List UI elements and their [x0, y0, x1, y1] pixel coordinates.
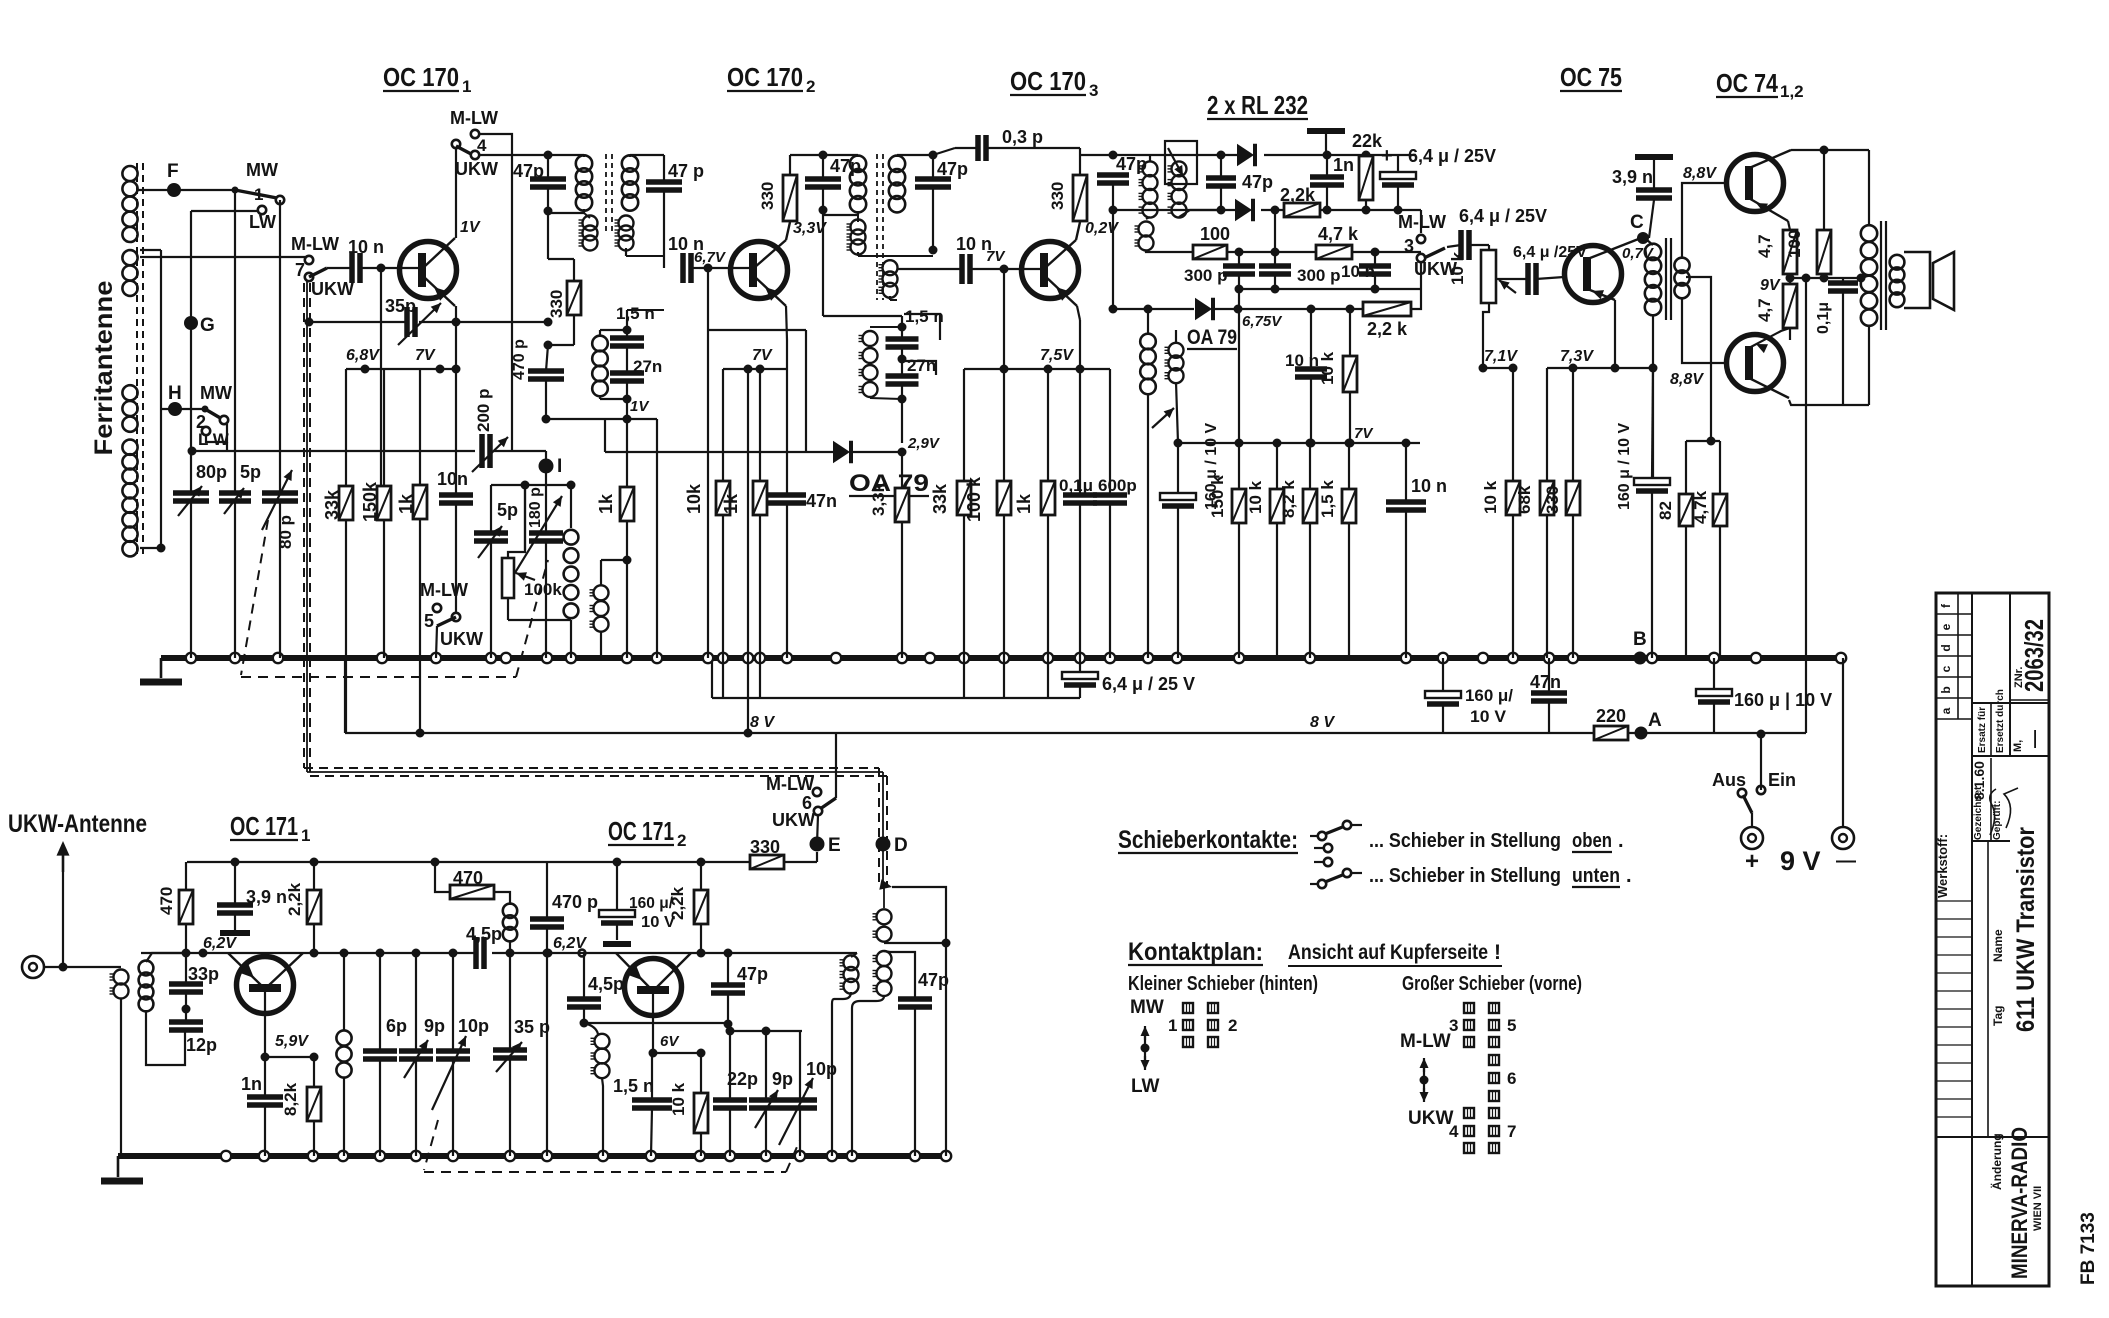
- osc coil: [564, 530, 579, 618]
- svg-text:LW: LW: [249, 212, 276, 232]
- svg-text:MW: MW: [1130, 997, 1164, 1018]
- svg-text:9p: 9p: [424, 1016, 445, 1036]
- gang dashed lower: [424, 1120, 438, 1170]
- svg-text:1: 1: [301, 826, 310, 845]
- svg-text:6V: 6V: [660, 1033, 680, 1050]
- svg-text:2,2k: 2,2k: [285, 882, 304, 916]
- svg-text:330: 330: [758, 182, 777, 210]
- svg-text:47 p: 47 p: [668, 161, 704, 181]
- svg-text:2: 2: [1228, 1016, 1237, 1035]
- svg-text:OC 171: OC 171: [230, 811, 298, 841]
- battery plus terminal: [1741, 827, 1763, 849]
- OC74_1 collector: [1747, 150, 1791, 169]
- svg-text:M,: M,: [2012, 740, 2024, 752]
- antenna coil winding 1: [122, 166, 137, 242]
- svg-text:600p: 600p: [1098, 476, 1137, 495]
- antenna secondary coil: [139, 961, 154, 1012]
- svg-text:7,1V: 7,1V: [1484, 348, 1518, 365]
- svg-text:330: 330: [1048, 182, 1067, 210]
- svg-text:9V: 9V: [1760, 277, 1781, 294]
- legend switch unten: [1324, 858, 1332, 866]
- line y419: [546, 418, 657, 420]
- svg-text:Name: Name: [1991, 929, 2005, 962]
- T1 UKW coil left: [579, 216, 598, 251]
- svg-text:12p: 12p: [186, 1035, 217, 1055]
- svg-text:6,8V: 6,8V: [346, 347, 380, 364]
- minerva radio: [2010, 1136, 2049, 1138]
- svg-text:3,9 n: 3,9 n: [1612, 167, 1653, 187]
- svg-text:2063/32: 2063/32: [2019, 619, 2049, 692]
- svg-text:+: +: [1745, 848, 1759, 875]
- collector diag OC171_1: [267, 953, 303, 987]
- OC74_2 collector: [1747, 377, 1789, 398]
- svg-text:22k: 22k: [1352, 131, 1383, 151]
- antenna input coil: [110, 970, 129, 999]
- output transformer core: [1880, 221, 1882, 330]
- svg-text:10 k: 10 k: [669, 1082, 688, 1116]
- svg-text:6,4 μ / 25V: 6,4 μ / 25V: [1408, 146, 1496, 166]
- svg-text:82: 82: [1656, 501, 1675, 520]
- svg-text:5p: 5p: [497, 500, 518, 520]
- svg-text:L W: L W: [198, 430, 230, 449]
- ground symbol left: [160, 658, 163, 678]
- sub rail under bus: [711, 658, 713, 698]
- svg-text:330: 330: [547, 290, 566, 318]
- transistor OC170_1: [400, 242, 457, 299]
- svg-text:0,1μ: 0,1μ: [1059, 476, 1093, 495]
- svg-text:... Schieber in Stellung: ... Schieber in Stellung: [1369, 865, 1561, 887]
- svg-text:A: A: [1648, 710, 1662, 731]
- svg-text:6: 6: [1507, 1069, 1516, 1088]
- title block frame: [1936, 593, 2049, 1286]
- capacitor 6.4u/25V sub rail: [1079, 658, 1081, 674]
- svg-text:LW: LW: [1131, 1076, 1160, 1097]
- svg-text:Schieberkontakte:: Schieberkontakte:: [1118, 826, 1298, 854]
- svg-text:e: e: [1939, 623, 1953, 630]
- svg-text:M-LW: M-LW: [450, 108, 498, 128]
- svg-text:0,1μ: 0,1μ: [1815, 302, 1832, 334]
- line 5.9V: [265, 1056, 314, 1058]
- svg-text:unten: unten: [1572, 865, 1620, 887]
- svg-text:1,5 k: 1,5 k: [1318, 480, 1337, 518]
- emitter diag OC171_1: [228, 953, 263, 987]
- transistor OC74_2: [1727, 335, 1784, 392]
- osc coil 2: [590, 585, 609, 631]
- transistor OC170_3: [1022, 242, 1079, 299]
- svg-text:FB 7133: FB 7133: [2078, 1212, 2099, 1285]
- svg-text:Werkstoff:: Werkstoff:: [1935, 834, 1950, 898]
- grosser contact squares: [1464, 1003, 1474, 1013]
- svg-text:2: 2: [677, 831, 686, 850]
- svg-text:Ersatz für: Ersatz für: [1977, 707, 1988, 753]
- svg-text:6p: 6p: [386, 1016, 407, 1036]
- svg-text:7V: 7V: [986, 248, 1006, 265]
- line y441: [1686, 440, 1720, 442]
- T3 trimmer box: [1165, 141, 1197, 184]
- antenna arrow: [62, 845, 65, 872]
- T2 UKW coil lower: [879, 260, 898, 298]
- svg-text:I: I: [557, 456, 562, 477]
- svg-text:180 p: 180 p: [527, 487, 544, 528]
- svg-text:1: 1: [462, 77, 471, 96]
- svg-text:80p: 80p: [196, 462, 227, 482]
- line443 to 289 link: [1419, 420, 1421, 443]
- antenna coil winding 2: [122, 250, 137, 296]
- svg-text:330: 330: [1543, 486, 1562, 514]
- T2 top line: [790, 154, 823, 156]
- transistor OC171_2: [625, 959, 682, 1016]
- transistor OC74_1: [1727, 155, 1784, 212]
- 9V to 8V rail: [1805, 278, 1807, 733]
- feedback coil: [503, 904, 517, 942]
- osc output coil: [851, 953, 857, 957]
- svg-text:1n: 1n: [1333, 155, 1354, 175]
- svg-text:1V: 1V: [630, 398, 650, 415]
- svg-text:!: !: [1494, 941, 1501, 964]
- variable capacitor 80p tuning: [262, 493, 298, 501]
- OC74_2 emitter: [1747, 328, 1790, 349]
- svg-text:Kontaktplan:: Kontaktplan:: [1128, 938, 1263, 966]
- node base OC170_2: [704, 264, 713, 273]
- svg-text:4: 4: [1449, 1122, 1459, 1141]
- svg-text:Tag: Tag: [1991, 1006, 2005, 1026]
- antenna core dashed: [136, 163, 138, 557]
- driver transformer secondary: [1674, 258, 1689, 299]
- driver transformer primary: [1645, 244, 1661, 316]
- collector OC170_3: [1046, 240, 1076, 267]
- svg-text:—: —: [1836, 850, 1856, 872]
- UKW osc coil: [584, 1023, 598, 1034]
- svg-text:1,5 n: 1,5 n: [905, 307, 944, 326]
- T1 primary coil: [576, 155, 592, 210]
- UKW IF output transformer: [892, 887, 946, 1156]
- lower ground bus: [118, 1153, 947, 1159]
- coax connector: [22, 956, 44, 978]
- svg-text:c: c: [1939, 665, 1953, 672]
- node E: [810, 837, 825, 852]
- svg-text:Ein: Ein: [1768, 770, 1796, 790]
- T1 tank coil: [592, 336, 608, 397]
- collector OC170_1: [424, 238, 455, 267]
- svg-text:1k: 1k: [596, 493, 616, 514]
- collector OC170_2: [755, 240, 786, 267]
- svg-text:H: H: [168, 383, 182, 404]
- svg-text:Ansicht auf Kupferseite: Ansicht auf Kupferseite: [1288, 941, 1488, 964]
- svg-text:160 μ/: 160 μ/: [1465, 686, 1513, 705]
- diode RL232 bottom: [1235, 199, 1253, 222]
- svg-text:oben: oben: [1572, 830, 1612, 852]
- T2 secondary coil: [889, 156, 905, 213]
- node F: [167, 183, 181, 197]
- T3b tank coil: [1140, 334, 1156, 395]
- svg-text:8,8V: 8,8V: [1683, 165, 1717, 182]
- link from 1V line: [604, 420, 606, 452]
- svg-text:2,9V: 2,9V: [907, 435, 941, 452]
- svg-text:300 p: 300 p: [1184, 266, 1227, 285]
- T3 top line: [1080, 154, 1245, 156]
- T1 top line: [548, 154, 584, 156]
- svg-text:Ferritantenne: Ferritantenne: [90, 280, 118, 455]
- svg-text:35p: 35p: [385, 296, 416, 316]
- node D: [876, 837, 891, 852]
- svg-text:Großer Schieber (vorne): Großer Schieber (vorne): [1402, 973, 1582, 995]
- output transformer primary: [1868, 150, 1870, 225]
- svg-text:47p: 47p: [737, 964, 768, 984]
- svg-text:9p: 9p: [772, 1069, 793, 1089]
- driver transformer core: [1665, 238, 1667, 320]
- svg-text:E: E: [828, 835, 841, 856]
- base lead down OC171_2: [652, 991, 654, 1053]
- svg-text:8.1.60: 8.1.60: [1971, 761, 1987, 800]
- svg-text:0,2V: 0,2V: [1085, 220, 1119, 237]
- collector diag OC171_2: [655, 953, 691, 989]
- node B: [1634, 652, 1647, 665]
- emitter OC75: [1585, 288, 1615, 300]
- ersatz cells: [1972, 702, 2049, 704]
- svg-text:470 p: 470 p: [511, 339, 528, 380]
- svg-text:47p: 47p: [937, 159, 968, 179]
- svg-text:7,3V: 7,3V: [1560, 348, 1594, 365]
- svg-text:M-LW: M-LW: [1398, 212, 1446, 232]
- svg-text:100 k: 100 k: [964, 476, 984, 522]
- svg-text:UKW: UKW: [455, 159, 498, 179]
- secondary bottom: [1682, 297, 1727, 363]
- svg-text:OC 74: OC 74: [1716, 68, 1778, 98]
- svg-text:150 k: 150 k: [1208, 475, 1227, 518]
- node base OC170_3: [1000, 265, 1009, 274]
- lower bus nodes: [221, 1151, 231, 1161]
- chassis bar top: [1307, 128, 1345, 134]
- svg-text:10 V: 10 V: [1470, 707, 1507, 726]
- svg-text:... Schieber in Stellung: ... Schieber in Stellung: [1369, 830, 1561, 852]
- transistor OC171_1: [237, 957, 294, 1014]
- svg-text:3: 3: [1089, 81, 1098, 100]
- diode OA79 stage2: [833, 441, 851, 464]
- line to OA79 stage2: [708, 329, 806, 331]
- lower ground symbol: [117, 1156, 120, 1177]
- speaker: [1890, 255, 1905, 307]
- T3 secondary bottom: [1179, 210, 1221, 217]
- emitter OC170_2: [755, 277, 786, 306]
- svg-text:7,5V: 7,5V: [1040, 347, 1074, 364]
- 8V rail: [344, 658, 346, 733]
- svg-text:—: —: [2024, 730, 2044, 748]
- svg-text:10 n: 10 n: [1411, 476, 1447, 496]
- title block revision rows: [1957, 593, 1959, 719]
- svg-text:10 k: 10 k: [1246, 480, 1265, 514]
- svg-text:47n: 47n: [1530, 672, 1561, 692]
- svg-text:Geprüft:: Geprüft:: [1992, 801, 2003, 840]
- svg-text:UKW: UKW: [440, 629, 483, 649]
- svg-text:Ersetzt durch: Ersetzt durch: [1995, 689, 2006, 753]
- svg-text:Aus: Aus: [1712, 770, 1746, 790]
- svg-text:MW: MW: [246, 160, 278, 180]
- collector OC75: [1585, 238, 1641, 260]
- svg-text:6,75V: 6,75V: [1242, 313, 1283, 330]
- svg-text:5: 5: [424, 611, 434, 631]
- line y289: [1239, 288, 1421, 290]
- diode OA79 AM: [1195, 298, 1213, 321]
- svg-text:OC 170: OC 170: [383, 62, 459, 92]
- wire switch7 to 10n: [327, 267, 352, 269]
- svg-text:8 V: 8 V: [1310, 714, 1335, 731]
- svg-text:4,7: 4,7: [1755, 234, 1774, 258]
- emitter OC170_3: [1046, 277, 1077, 306]
- T3 secondary coil: [1168, 161, 1187, 217]
- svg-text:47p: 47p: [918, 970, 949, 990]
- diode RL232 top: [1237, 144, 1255, 167]
- wire T2 to 10n: [890, 268, 962, 270]
- shielded cable from switch7 to D: [303, 283, 305, 768]
- bus nodes: [186, 653, 196, 663]
- svg-text:8,8V: 8,8V: [1670, 371, 1704, 388]
- transistor OC170_2: [731, 242, 788, 299]
- T2 UKW coil left: [847, 220, 866, 255]
- svg-text:7V: 7V: [1354, 425, 1374, 442]
- svg-text:MINERVA-RADIO: MINERVA-RADIO: [2007, 1127, 2032, 1279]
- svg-text:OC 170: OC 170: [1010, 66, 1086, 96]
- line 7V AGC: [1178, 442, 1420, 444]
- switch4 UKW wire: [479, 154, 548, 156]
- svg-text:4,7k: 4,7k: [1691, 490, 1710, 524]
- svg-text:3: 3: [1449, 1016, 1458, 1035]
- svg-text:27n: 27n: [907, 356, 936, 375]
- 9V line: [1790, 277, 1861, 279]
- svg-text:470 p: 470 p: [552, 892, 598, 912]
- name tag rows: [1936, 900, 1972, 902]
- UKW ratio coil: [1135, 222, 1154, 251]
- svg-text:1V: 1V: [460, 219, 481, 236]
- svg-text:22p: 22p: [727, 1069, 758, 1089]
- svg-text:4: 4: [477, 136, 487, 155]
- svg-text:10 k: 10 k: [1481, 480, 1500, 514]
- svg-text:1n: 1n: [241, 1074, 262, 1094]
- svg-text:M-LW: M-LW: [1400, 1031, 1451, 1052]
- svg-text:D: D: [894, 835, 908, 856]
- collector load coil: [336, 1030, 351, 1077]
- svg-text:2 x RL 232: 2 x RL 232: [1207, 90, 1308, 120]
- svg-text:2,2k: 2,2k: [668, 886, 687, 920]
- svg-text:5,9V: 5,9V: [275, 1033, 309, 1050]
- T3 primary coil: [1139, 161, 1158, 217]
- kleiner contact squares: [1183, 1003, 1193, 1013]
- svg-text:100: 100: [1200, 224, 1230, 244]
- svg-text:M-LW: M-LW: [420, 580, 468, 600]
- svg-text:1: 1: [254, 185, 263, 204]
- svg-text:47n: 47n: [806, 491, 837, 511]
- svg-text:B: B: [1633, 629, 1647, 650]
- switch 3 M-LW/UKW: [1420, 210, 1422, 233]
- svg-text:1k: 1k: [1014, 493, 1034, 514]
- svg-text:200 p: 200 p: [474, 389, 493, 432]
- svg-text:160 μ | 10 V: 160 μ | 10 V: [1734, 690, 1832, 710]
- svg-text:7V: 7V: [415, 347, 436, 364]
- svg-text:35 p: 35 p: [514, 1017, 550, 1037]
- battery minus terminal: [1832, 827, 1854, 849]
- svg-text:4,7: 4,7: [1755, 298, 1774, 322]
- svg-text:Änderung: Änderung: [1989, 1133, 2004, 1190]
- svg-text:2,2 k: 2,2 k: [1367, 319, 1408, 339]
- svg-text:160 μ / 10 V: 160 μ / 10 V: [1616, 422, 1633, 510]
- emitter diag OC171_2: [616, 953, 651, 989]
- node A: [1635, 727, 1648, 740]
- svg-text:6,2V: 6,2V: [553, 935, 587, 952]
- T2 tank chain: [822, 210, 824, 316]
- svg-text:100k: 100k: [524, 580, 562, 599]
- tuning gang dashed link: [241, 520, 268, 675]
- svg-text:10 k: 10 k: [1318, 351, 1337, 385]
- T2 tank brackets: [904, 314, 940, 340]
- svg-text:470: 470: [157, 887, 176, 915]
- capacitor 160u/10V right: [1713, 658, 1715, 691]
- legend switch oben: [1318, 832, 1326, 840]
- padder line: [728, 1030, 802, 1032]
- title block vertical dividers: [1971, 593, 1973, 1286]
- svg-text:3,3k: 3,3k: [869, 482, 888, 516]
- T1 secondary coil: [622, 155, 638, 210]
- svg-text:4,7 k: 4,7 k: [1318, 224, 1359, 244]
- svg-text:OC 171: OC 171: [608, 816, 674, 846]
- svg-text:UKW: UKW: [311, 279, 354, 299]
- svg-text:4,5p: 4,5p: [588, 974, 624, 994]
- T3b secondary coil: [1165, 343, 1184, 383]
- switch1 arm vertical: [279, 200, 281, 493]
- LW contact lead: [191, 210, 258, 212]
- svg-text:Kleiner Schieber (hinten): Kleiner Schieber (hinten): [1128, 973, 1318, 995]
- svg-text:F: F: [167, 161, 179, 182]
- switch4 M-LW wire: [479, 134, 512, 451]
- svg-text:G: G: [200, 315, 215, 336]
- svg-text:WIEN VII: WIEN VII: [2032, 1186, 2044, 1231]
- svg-text:6,7V: 6,7V: [694, 249, 727, 266]
- svg-text:b: b: [1939, 686, 1953, 693]
- svg-text:.: .: [1618, 830, 1624, 852]
- svg-text:1,2: 1,2: [1780, 82, 1804, 101]
- T1 UKW coil right: [615, 216, 634, 251]
- line y210 detector: [1113, 209, 1243, 211]
- aenderung rows: [1936, 1062, 1972, 1064]
- node base OC170_1: [377, 264, 386, 273]
- tuning arrow T3b: [1152, 408, 1174, 428]
- crossing marker: [579, 950, 586, 957]
- svg-text:8 V: 8 V: [750, 714, 775, 731]
- svg-text:1: 1: [1168, 1016, 1177, 1035]
- svg-text:611 UKW Transistor: 611 UKW Transistor: [2012, 827, 2040, 1032]
- svg-text:+: +: [1381, 145, 1393, 167]
- T1 tank top: [626, 310, 628, 338]
- svg-text:10 k: 10 k: [1448, 251, 1467, 285]
- svg-text:300 p: 300 p: [1297, 266, 1340, 285]
- svg-text:6,4 μ / 25V: 6,4 μ / 25V: [1459, 206, 1547, 226]
- svg-text:1,5 n: 1,5 n: [613, 1076, 654, 1096]
- resistor 330 stage1: [547, 211, 549, 259]
- svg-text:2: 2: [806, 77, 815, 96]
- antenna coil winding 4: [122, 440, 137, 557]
- svg-text:6,2V: 6,2V: [203, 935, 237, 952]
- svg-text:1,5 n: 1,5 n: [616, 304, 655, 323]
- capacitor 160u/10V rail left: [1442, 658, 1444, 693]
- secondary tap: [1686, 277, 1711, 441]
- svg-text:a: a: [1939, 707, 1953, 714]
- svg-text:OC 170: OC 170: [727, 62, 803, 92]
- svg-text:M-LW: M-LW: [766, 774, 814, 794]
- svg-text:220: 220: [1596, 706, 1626, 726]
- line to 200p: [191, 450, 227, 452]
- switch Aus/Ein: [1757, 730, 1766, 739]
- svg-text:80 p: 80 p: [276, 515, 295, 549]
- svg-text:10p: 10p: [458, 1016, 489, 1036]
- capacitor 47n rail: [1548, 658, 1550, 693]
